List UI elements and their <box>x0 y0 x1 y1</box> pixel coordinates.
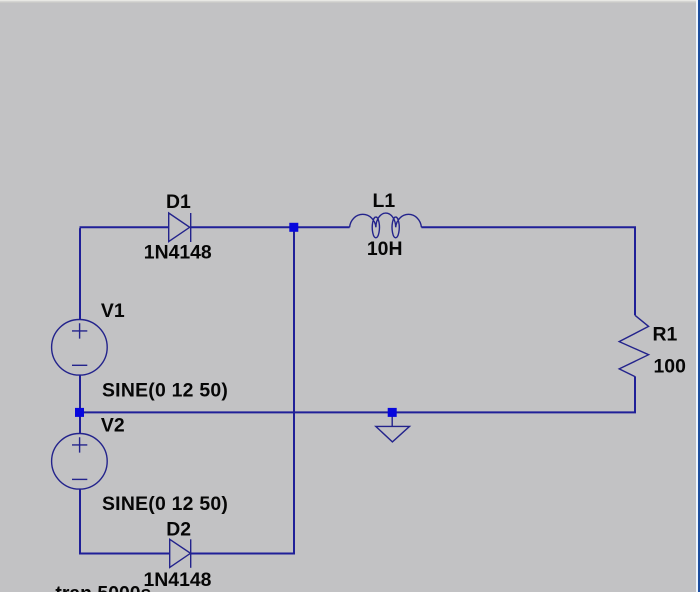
svg-text:R1: R1 <box>653 323 678 345</box>
svg-text:100: 100 <box>654 355 686 377</box>
svg-text:L1: L1 <box>373 190 396 212</box>
wire <box>191 553 295 555</box>
svg-text:.tran 5000s: .tran 5000s <box>50 582 151 592</box>
voltage source V1 <box>52 320 108 376</box>
junction node ground <box>388 408 397 417</box>
diode D2 <box>170 539 191 568</box>
diode D1 <box>169 213 191 242</box>
junction node center-tap <box>75 408 84 417</box>
junction node A <box>289 223 298 232</box>
wire <box>80 411 389 413</box>
svg-text:10H: 10H <box>367 238 403 260</box>
wire <box>191 226 295 228</box>
resistor R1 <box>619 315 648 376</box>
svg-text:SINE(0 12 50): SINE(0 12 50) <box>102 379 228 401</box>
inductor L1 <box>350 213 422 238</box>
svg-text:1N4148: 1N4148 <box>144 242 212 264</box>
wire <box>80 227 169 319</box>
wire <box>79 375 81 434</box>
svg-text:V1: V1 <box>101 300 125 322</box>
svg-text:D1: D1 <box>166 191 191 213</box>
wire <box>79 489 170 554</box>
svg-text:D2: D2 <box>166 519 191 541</box>
wire <box>293 227 295 554</box>
ground <box>376 417 410 442</box>
voltage source V2 <box>52 434 108 490</box>
svg-text:SINE(0 12 50): SINE(0 12 50) <box>102 493 228 515</box>
svg-text:V2: V2 <box>101 415 125 437</box>
wire <box>294 226 350 228</box>
wire <box>421 226 635 315</box>
wire <box>397 376 637 412</box>
svg-text:1N4148: 1N4148 <box>144 569 212 591</box>
